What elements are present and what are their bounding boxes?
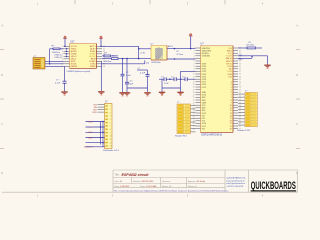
svg-text:R232: R232 [90, 66, 96, 68]
svg-text:Time: 1:13:15 AM: Time: 1:13:15 AM [140, 185, 156, 188]
svg-text:39: 39 [239, 63, 241, 65]
svg-text:Approve: M. Fodle: Approve: M. Fodle [188, 180, 206, 183]
svg-text:4: 4 [110, 116, 111, 118]
svg-text:3: 3 [110, 112, 111, 114]
svg-text:ESP4032 circuit: ESP4032 circuit [122, 173, 150, 177]
svg-text:38: 38 [239, 61, 241, 63]
svg-text:3: 3 [194, 53, 195, 55]
svg-text:Number: ESP32-2023: Number: ESP32-2023 [133, 180, 154, 183]
svg-text:43: 43 [239, 74, 241, 76]
svg-text:RXD: RXD [93, 112, 98, 114]
svg-text:info@quickboards.io: info@quickboards.io [226, 182, 246, 185]
svg-text:GND8: GND8 [71, 66, 78, 68]
svg-text:0.1uF: 0.1uF [55, 83, 61, 85]
svg-text:2: 2 [110, 109, 111, 111]
svg-text:C: C [1, 122, 3, 126]
svg-text:47: 47 [239, 84, 241, 86]
svg-text:11: 11 [193, 74, 195, 76]
svg-text:C?: C? [182, 76, 184, 78]
svg-text:+C?: +C? [129, 81, 133, 83]
svg-text:20: 20 [193, 97, 195, 99]
svg-text:58: 58 [239, 113, 241, 115]
svg-text:R?: R? [177, 51, 179, 53]
svg-text:GND: GND [88, 137, 93, 139]
svg-text:50: 50 [239, 92, 241, 94]
svg-text:8: 8 [110, 129, 111, 131]
svg-text:QUICKBOARDS: QUICKBOARDS [251, 180, 296, 192]
svg-text:45: 45 [239, 79, 241, 81]
svg-text:B: B [296, 73, 298, 77]
svg-text:C: C [296, 122, 298, 126]
svg-text:63: 63 [239, 126, 241, 128]
svg-text:U1?: U1? [70, 41, 75, 44]
svg-text:File: C:\Users\buratino\Docume: File: C:\Users\buratino\Documents\Altium… [114, 189, 229, 192]
svg-text:22 Ohm: 22 Ohm [177, 54, 184, 56]
svg-text:1: 1 [194, 48, 195, 50]
svg-text:19: 19 [193, 95, 195, 97]
svg-text:30: 30 [193, 123, 195, 125]
svg-text:C?: C? [171, 76, 173, 78]
svg-text:8: 8 [194, 66, 195, 68]
svg-text:2: 2 [194, 50, 195, 52]
svg-text:C?: C? [161, 76, 163, 78]
svg-text:21: 21 [193, 100, 195, 102]
svg-text:40: 40 [239, 66, 241, 68]
svg-text:IO5: IO5 [229, 76, 232, 78]
svg-text:11: 11 [110, 139, 112, 141]
svg-text:26: 26 [193, 113, 195, 115]
svg-text:17: 17 [193, 89, 195, 91]
svg-text:25: 25 [193, 110, 195, 112]
svg-text:D: D [1, 171, 3, 175]
svg-text:42: 42 [239, 71, 241, 73]
svg-text:57: 57 [239, 110, 241, 112]
svg-text:13: 13 [110, 146, 112, 148]
svg-text:24: 24 [193, 108, 195, 110]
svg-text:PinHeader 1x13: PinHeader 1x13 [103, 149, 119, 152]
svg-text:13: 13 [193, 79, 195, 81]
svg-text:49: 49 [239, 89, 241, 91]
svg-text:Date: 1/16/2023: Date: 1/16/2023 [115, 185, 131, 188]
svg-text:44: 44 [239, 76, 241, 78]
svg-text:12: 12 [110, 142, 112, 144]
svg-text:Size: A4: Size: A4 [115, 180, 123, 183]
svg-text:C?: C? [126, 72, 128, 74]
svg-text:6: 6 [194, 61, 195, 63]
svg-text:19: 19 [230, 128, 232, 130]
svg-text:18: 18 [103, 66, 105, 68]
svg-text:12: 12 [193, 76, 195, 78]
svg-text:5: 5 [194, 58, 195, 60]
svg-text:48: 48 [239, 87, 241, 89]
svg-text:Sheet: of: Sheet: of [188, 185, 197, 188]
svg-text:22: 22 [193, 102, 195, 104]
svg-text:Sheet: 1/1: Sheet: 1/1 [162, 185, 172, 188]
svg-text:41: 41 [239, 69, 241, 71]
svg-text:7: 7 [194, 63, 195, 65]
svg-text:6: 6 [110, 122, 111, 124]
svg-text:4: 4 [194, 56, 195, 58]
svg-text:ANT1: ANT1 [168, 45, 173, 48]
svg-text:A: A [296, 24, 298, 28]
svg-text:5: 5 [110, 119, 111, 121]
svg-text:www.quickboards.io: www.quickboards.io [226, 179, 245, 182]
svg-text:IO5: IO5 [202, 128, 205, 130]
svg-text:Title:: Title: [115, 174, 120, 177]
svg-text:CH340C(without crystal): CH340C(without crystal) [67, 70, 91, 73]
svg-text:IO12: IO12 [202, 87, 206, 89]
svg-text:31: 31 [193, 126, 195, 128]
svg-text:34: 34 [239, 50, 241, 52]
svg-text:9: 9 [194, 69, 195, 71]
svg-text:14: 14 [193, 82, 195, 84]
svg-text:B: B [1, 73, 3, 77]
svg-text:1.6kOhm: 1.6kOhm [104, 61, 112, 63]
svg-text:9: 9 [62, 66, 63, 68]
svg-text:10: 10 [193, 71, 195, 73]
svg-text:X_IN: X_IN [141, 53, 146, 55]
svg-text:22p: 22p [146, 62, 149, 64]
svg-text:16: 16 [193, 87, 195, 89]
svg-text:1: 1 [110, 106, 111, 108]
svg-text:A: A [1, 24, 3, 28]
svg-text:QUICKBOARDS Ltd.: QUICKBOARDS Ltd. [226, 176, 246, 179]
svg-text:0.1uF: 0.1uF [140, 73, 146, 75]
svg-text:+44 20 1234 5678: +44 20 1234 5678 [226, 186, 244, 188]
svg-text:Header 11X2: Header 11X2 [238, 129, 252, 132]
svg-text:Revision:: Revision: [162, 181, 171, 183]
svg-text:IO36 (IN): IO36 (IN) [202, 56, 210, 58]
svg-text:7: 7 [110, 126, 111, 128]
svg-text:B220 Filter: B220 Filter [152, 61, 162, 64]
svg-text:51: 51 [239, 95, 241, 97]
svg-text:46: 46 [239, 82, 241, 84]
svg-text:Header 9X2: Header 9X2 [175, 135, 187, 138]
svg-text:ESP32-WROOM-32: ESP32-WROOM-32 [202, 134, 223, 136]
svg-text:15: 15 [193, 84, 195, 86]
svg-text:100 Ohm: 100 Ohm [246, 45, 255, 47]
svg-text:10: 10 [110, 136, 112, 138]
svg-text:0.1uF: 0.1uF [126, 75, 132, 77]
svg-text:18: 18 [193, 92, 195, 94]
svg-text:9: 9 [110, 132, 111, 134]
svg-text:56: 56 [239, 108, 241, 110]
